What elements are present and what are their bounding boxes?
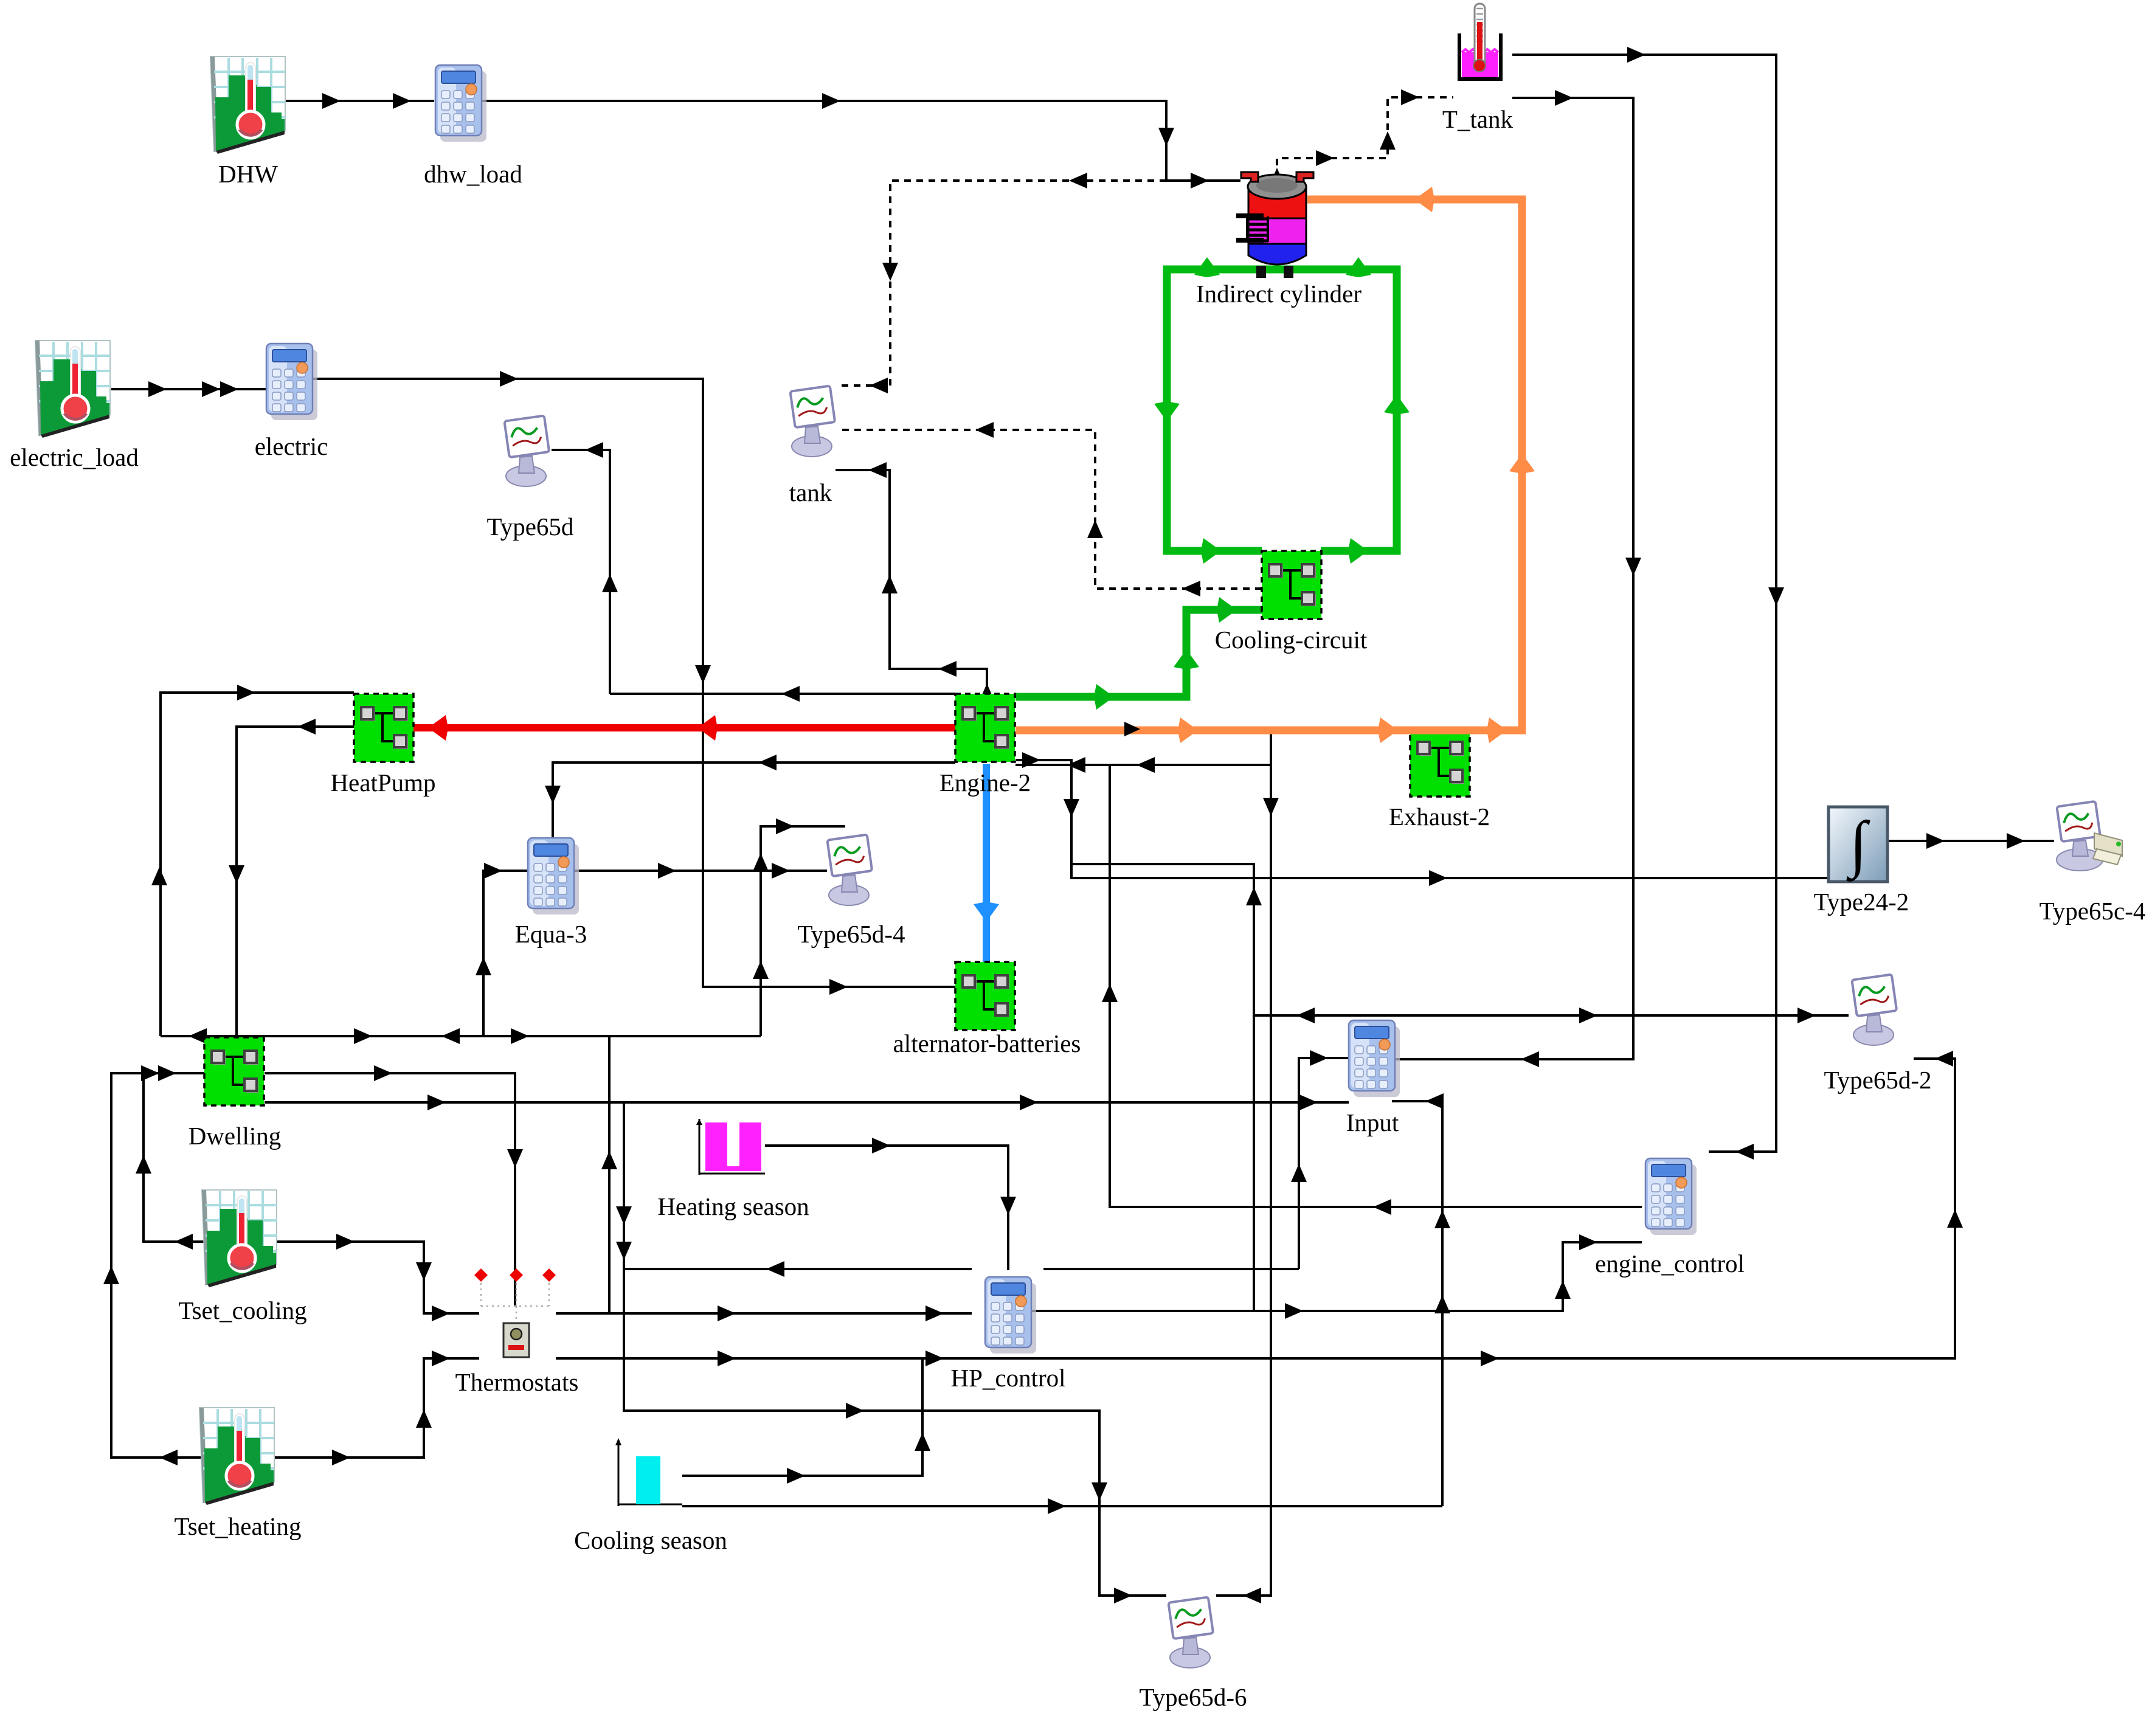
svg-text:T_tank: T_tank (1442, 105, 1514, 133)
component Type65d-4 (online plotter icon) (827, 835, 872, 905)
wire Thermostats long row to Type65d-2 (556, 1051, 1963, 1366)
wire row from HP area to Input riser (1043, 1268, 1299, 1270)
svg-text:Equa-3: Equa-3 (515, 920, 587, 948)
component Tset_heating (data reader icon) (199, 1408, 274, 1505)
wire Cooling season out (682, 1358, 930, 1484)
component engine_control (equation calculator icon) (1645, 1158, 1697, 1235)
component Tset_cooling (data reader icon) (202, 1190, 277, 1287)
svg-text:Engine-2: Engine-2 (939, 769, 1031, 797)
svg-text:Cooling season: Cooling season (574, 1526, 727, 1554)
component Thermostats (thermostat icon) (474, 1268, 556, 1357)
wire riser x1251 from Dwelling row (753, 818, 845, 1036)
wire Dwelling to HeatPump top (151, 685, 354, 1036)
wire Engine-2 to tank plotter (836, 462, 995, 702)
wire Engine-2 to Exhaust-2 (hidden under orange pipe, arrowhead visible) (1124, 722, 1140, 736)
component dhw_load (equation calculator icon) (435, 65, 486, 142)
component Input (equation calculator icon) (1349, 1020, 1400, 1097)
svg-text:Type65c-4: Type65c-4 (2040, 897, 2146, 925)
wire Dwelling top row (161, 1028, 761, 1044)
svg-text:HeatPump: HeatPump (330, 769, 435, 797)
wire Engine-2 to Equa-3 (545, 755, 955, 840)
svg-text:Tset_cooling: Tset_cooling (178, 1296, 306, 1324)
svg-text:alternator-batteries: alternator-batteries (893, 1029, 1081, 1057)
svg-text:Type24-2: Type24-2 (1814, 888, 1909, 916)
component HP_control (equation calculator icon) (985, 1277, 1036, 1354)
wire Engine-2 to Type24-2 (1015, 752, 1829, 886)
wire T_tank to Input (1392, 90, 1641, 1067)
svg-text:DHW: DHW (218, 160, 278, 188)
component DHW (data reader icon) (210, 57, 285, 154)
wire Engine-2 bottom right row (1015, 757, 1271, 773)
svg-text:tank: tank (789, 479, 832, 507)
wire dashed Cooling-circuit to tank plotter (837, 422, 1262, 597)
wire red pipe Engine-2 to HeatPump (413, 715, 955, 741)
wire Cooling season bottom row (682, 1498, 1442, 1514)
svg-text:Input: Input (1346, 1108, 1399, 1136)
wire Type24-2 to Type65c-4 (1889, 833, 2054, 849)
wire drop from orange row to Type65d-6 (1216, 733, 1279, 1603)
component electric (equation calculator icon) (266, 344, 317, 420)
component Type65d (online plotter icon) (504, 416, 549, 486)
component Engine-2 (macro green box) (955, 694, 1015, 762)
component tank (online plotter icon) (790, 386, 835, 457)
wire dashed junction to tank plotter (840, 173, 1166, 393)
component Indirect cylinder (storage tank icon) (1236, 172, 1313, 278)
wire dhw_load to Indirect cylinder (480, 93, 1240, 188)
wire riser x1002 Thermostats row to Dwelling top row (601, 1036, 617, 1313)
component HeatPump (macro green box) (354, 694, 413, 762)
svg-text:Thermostats: Thermostats (455, 1368, 579, 1396)
component Type65c-4 (plotter with printer icon) (2057, 801, 2122, 871)
component Type65d-6 (online plotter icon) (1168, 1597, 1213, 1668)
component Cooling season (cooling season forcing function icon) (615, 1438, 682, 1506)
component electric_load (data reader icon) (35, 341, 110, 438)
component Type24-2 (integrator icon) (1829, 807, 1887, 882)
svg-text:engine_control: engine_control (1595, 1250, 1745, 1278)
wire Tset_cooling to Thermostats (278, 1234, 479, 1321)
svg-text:Type65d: Type65d (487, 513, 574, 541)
svg-text:Type65d-6: Type65d-6 (1139, 1683, 1247, 1711)
wire up into Input left (1291, 1050, 1349, 1269)
wire branch down from Dwelling row (616, 1102, 1166, 1603)
component Dwelling (macro green box) (204, 1037, 264, 1105)
wire row into Type65d-2 left (1254, 1008, 1849, 1023)
wire green pipe loop (1154, 257, 1410, 564)
wire Dwelling long row to Input (265, 1095, 1349, 1110)
wire Tset_heating to Thermostats (275, 1350, 479, 1465)
wire electric down to alternator-batteries (313, 371, 955, 995)
component Cooling-circuit (macro green box) (1262, 551, 1321, 619)
svg-text:HP_control: HP_control (950, 1364, 1065, 1392)
svg-text:Type65d-2: Type65d-2 (1824, 1066, 1931, 1094)
component Exhaust-2 (macro green box) (1410, 728, 1470, 797)
wire Dwelling to Thermostats top (265, 1065, 523, 1306)
wire T_tank to engine_control (1512, 47, 1784, 1160)
wire HP_control to engine_control and Input (1030, 1234, 1642, 1319)
wire engine_control to Engine-2 (1102, 765, 1642, 1215)
wire Thermostats to HP_control (556, 1305, 972, 1321)
svg-text:dhw_load: dhw_load (424, 160, 522, 188)
component alternator-batteries (macro green box) (955, 962, 1015, 1030)
wire Tset_heating to Dwelling (103, 1065, 275, 1465)
wire HeatPump to Dwelling left (229, 719, 354, 1037)
wire orange pipe Engine-2 to Indirect cylinder (1015, 187, 1535, 743)
wire Engine-2 to Type65d (552, 442, 618, 694)
svg-text:Heating season: Heating season (657, 1192, 809, 1220)
svg-text:Indirect cylinder: Indirect cylinder (1196, 280, 1361, 308)
component Equa-3 (equation calculator icon) (528, 838, 579, 915)
component Type65d-2 (online plotter icon) (1852, 975, 1897, 1045)
wire green pipe Engine-2 to Cooling-circuit (1015, 597, 1262, 710)
component Heating season (heating season forcing function icon) (696, 1119, 765, 1175)
svg-text:Dwelling: Dwelling (189, 1122, 282, 1150)
wire up into Input right (1392, 1093, 1450, 1506)
wire row up to Equa-3 left (476, 863, 528, 1036)
wire branch up x2062 (1071, 864, 1262, 1311)
svg-text:Exhaust-2: Exhaust-2 (1389, 803, 1490, 831)
wire blue pipe Engine-2 to alternator-batteries (974, 764, 999, 962)
wire row into HP_control top left (624, 1261, 972, 1277)
wire Equa-3 to Type65d-4 (572, 863, 827, 879)
svg-text:Tset_heating: Tset_heating (175, 1512, 302, 1540)
svg-text:Type65d-4: Type65d-4 (797, 920, 905, 948)
wire Engine-2 left row (610, 686, 955, 702)
wire DHW to dhw_load (286, 93, 434, 109)
svg-text:electric_load: electric_load (10, 443, 139, 471)
wire Heating season to HP_control (765, 1138, 1016, 1270)
svg-text:Cooling-circuit: Cooling-circuit (1215, 626, 1368, 654)
wire Tset_cooling to Dwelling (136, 1065, 278, 1250)
component T_tank (tank thermometer icon) (1459, 4, 1501, 79)
wire dashed Indirect cylinder to T_tank (1269, 89, 1453, 186)
wire electric_load to electric (111, 381, 266, 397)
svg-text:electric: electric (255, 432, 328, 460)
